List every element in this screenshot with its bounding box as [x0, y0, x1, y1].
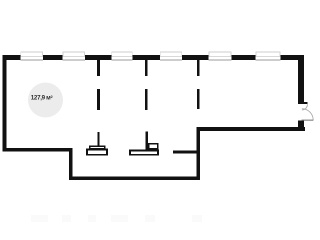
right exterior wall upper	[298, 55, 304, 104]
left step vertical wall	[69, 148, 72, 180]
door leaf line	[302, 120, 314, 121]
left exterior wall	[3, 55, 7, 151]
right exterior wall lower	[298, 120, 304, 131]
upper-right horizontal wall	[197, 127, 305, 131]
interior wall stub	[173, 150, 198, 153]
top wall segment 7	[280, 55, 304, 60]
door main leaf arc	[302, 109, 313, 120]
fixture F1 large box	[87, 150, 107, 155]
watermark blobs (faint)	[31, 215, 202, 222]
fixture F2 small box	[149, 144, 158, 149]
top wall segment 3	[85, 55, 112, 60]
fixture F1 small box	[90, 146, 105, 149]
window W1 lines	[20, 51, 43, 60]
fixture F1 riser stem	[97, 132, 99, 147]
window W5 lines	[209, 51, 232, 60]
door frame notch	[302, 102, 308, 104]
lower-left horizontal wall	[3, 148, 73, 151]
door small leaf arc	[302, 104, 308, 110]
window W2 lines	[62, 51, 84, 60]
dashed partition line 1	[97, 60, 100, 110]
window W4 lines	[160, 51, 182, 60]
window W3 lines	[111, 51, 132, 60]
area label circle	[28, 83, 63, 118]
top wall segment 6	[231, 55, 255, 60]
window W6 lines	[255, 51, 280, 60]
top wall segment 2	[43, 55, 62, 60]
fixture F2 large box	[130, 151, 158, 155]
right step vertical wall	[197, 127, 201, 180]
dashed partition line 2	[145, 59, 148, 110]
top wall segment 1	[3, 55, 21, 60]
svg-text:127,9 м2: 127,9 м2	[31, 94, 54, 102]
top wall segment 5	[182, 55, 208, 60]
dashed partition line 3	[197, 59, 200, 109]
bottom wall	[69, 176, 200, 180]
top wall segment 4	[133, 55, 160, 60]
window end ticks	[20, 51, 280, 56]
fixture F2 riser stem	[145, 131, 148, 149]
